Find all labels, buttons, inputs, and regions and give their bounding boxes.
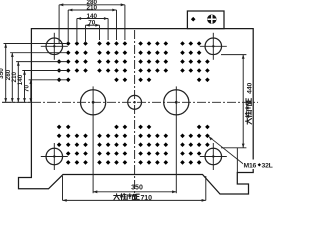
dimension 210 (left hole rows) xyxy=(16,62,66,103)
label 440 (rotated) xyxy=(245,82,253,124)
dimension 280 (top hole columns) xyxy=(59,5,125,43)
right middle circle on centerline xyxy=(164,86,189,193)
svg-text:440: 440 xyxy=(247,82,254,93)
label 710 with CJK xyxy=(114,194,140,200)
tab locating target symbol xyxy=(207,15,216,24)
tie-bar hole top-left xyxy=(41,33,68,60)
dimension 210 (top hole columns) xyxy=(68,10,116,43)
bolt hole grid (M16 tapped holes) xyxy=(57,41,210,165)
svg-text:350: 350 xyxy=(131,185,143,192)
leader line to M16 hole xyxy=(209,136,244,164)
dimension 70 (top hole columns) xyxy=(86,25,100,43)
dimension 140 (left hole rows) xyxy=(22,71,66,103)
svg-text:710: 710 xyxy=(141,195,153,202)
dimension tie-bar inner distance 710 (bottom) xyxy=(63,176,206,200)
left chain baseline xyxy=(2,101,31,103)
tie-bar hole bottom-left xyxy=(41,143,68,170)
left middle circle on centerline xyxy=(81,86,106,193)
svg-text:210: 210 xyxy=(86,4,97,11)
tab bolt hole xyxy=(191,17,196,22)
horizontal centerline xyxy=(2,101,258,103)
dimension 140 (top hole columns) xyxy=(77,19,108,44)
center hole xyxy=(128,95,142,109)
dimension 350 (left hole rows) xyxy=(4,44,67,103)
dimension 70 (left hole rows) xyxy=(29,80,66,103)
vertical centerline xyxy=(134,30,136,196)
svg-text:M16: M16 xyxy=(244,162,257,169)
label M16*32L xyxy=(243,160,275,170)
platen plate outline xyxy=(19,29,254,194)
svg-text:32L: 32L xyxy=(262,162,273,169)
dimension 350 (between middle circles) xyxy=(93,191,176,193)
svg-text:70: 70 xyxy=(23,85,30,93)
top mounting tab xyxy=(187,11,224,29)
tie-bar hole bottom-right xyxy=(200,143,227,170)
dimension tie-bar inner distance 440 (right) xyxy=(221,55,246,173)
tie-bar hole top-right xyxy=(200,33,227,60)
dimension 280 (left hole rows) xyxy=(10,53,66,103)
svg-text:140: 140 xyxy=(17,74,24,85)
svg-text:70: 70 xyxy=(88,20,96,27)
